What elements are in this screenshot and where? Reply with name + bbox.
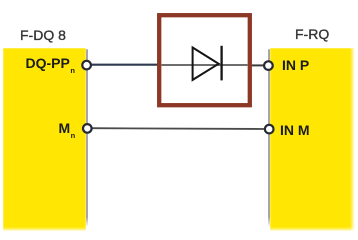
pin label IN P — [282, 57, 309, 73]
terminal DQ-PPn — [82, 61, 91, 70]
label F-RQ — [295, 26, 329, 42]
wire Mn to IN M — [91, 127, 265, 130]
terminal Mn — [83, 124, 92, 133]
block F-RQ left edge shadow — [268, 49, 270, 227]
block F-DQ 8 (left yellow module) — [3, 48, 87, 231]
wire DQ-PPn to diode box — [90, 64, 158, 66]
terminal IN P — [264, 61, 273, 70]
block F-RQ (right yellow module) — [270, 48, 355, 231]
wire diode box to IN P — [251, 64, 264, 66]
pin label Mn — [59, 120, 75, 139]
diode D — [193, 46, 222, 81]
terminal IN M — [265, 125, 274, 134]
block F-DQ 8 right edge shadow — [86, 49, 88, 227]
pin label DQ-PPn — [26, 55, 75, 74]
diode box (decoupling element) — [159, 15, 250, 105]
wire inside diode box — [162, 64, 248, 66]
pin label IN M — [280, 122, 310, 138]
label F-DQ 8 — [20, 27, 66, 43]
